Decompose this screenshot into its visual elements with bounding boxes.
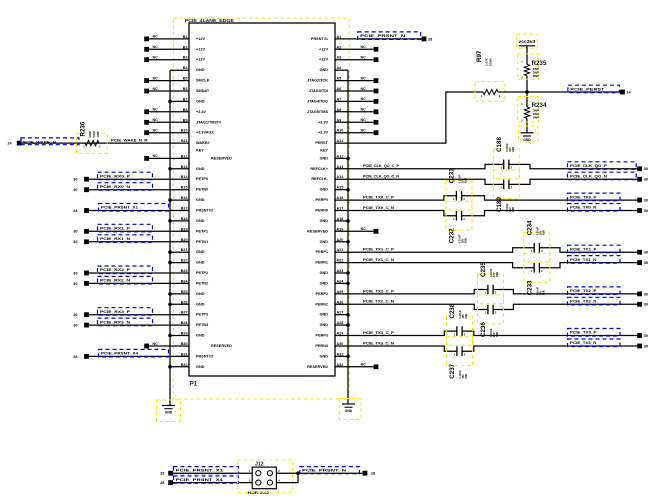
- svg-text:A19: A19: [337, 227, 344, 231]
- svg-text:PETP3: PETP3: [196, 313, 208, 317]
- svg-text:A15: A15: [337, 186, 344, 190]
- svg-text:A31: A31: [337, 352, 344, 356]
- svg-text:GND: GND: [196, 302, 205, 306]
- svg-text:X5R: X5R: [464, 238, 468, 243]
- svg-text:B17: B17: [181, 207, 188, 211]
- svg-text:B27: B27: [181, 311, 188, 315]
- svg-text:A21: A21: [337, 248, 344, 252]
- svg-text:PCIE_CLK_QO_P: PCIE_CLK_QO_P: [570, 163, 607, 168]
- svg-text:30: 30: [73, 271, 77, 275]
- svg-text:PRSNT#1: PRSNT#1: [311, 37, 328, 41]
- svg-text:A27: A27: [337, 311, 344, 315]
- svg-text:GND: GND: [196, 68, 205, 72]
- svg-text:X5R: X5R: [495, 332, 499, 337]
- svg-text:GND: GND: [320, 271, 329, 275]
- svg-text:B7: B7: [183, 97, 188, 101]
- svg-text:+12V: +12V: [196, 47, 205, 51]
- svg-text:GND: GND: [196, 198, 205, 202]
- svg-text:RESERVED: RESERVED: [307, 229, 328, 233]
- svg-text:B15: B15: [181, 186, 188, 190]
- svg-text:GND: GND: [320, 188, 329, 192]
- svg-text:30: 30: [644, 261, 648, 265]
- svg-text:+3.3V: +3.3V: [318, 120, 328, 124]
- svg-text:NC: NC: [361, 227, 367, 231]
- svg-text:RESERVED: RESERVED: [211, 344, 232, 348]
- svg-text:B10: B10: [181, 129, 188, 133]
- svg-text:NC: NC: [153, 129, 159, 133]
- svg-text:PRSNT#2: PRSNT#2: [196, 354, 213, 358]
- svg-text:30: 30: [644, 251, 648, 255]
- svg-text:A14: A14: [337, 175, 345, 179]
- svg-text:A9: A9: [337, 118, 342, 122]
- svg-text:C236: C236: [480, 322, 487, 337]
- svg-text:B16: B16: [181, 196, 188, 200]
- svg-text:PCIE_RX2_P: PCIE_RX2_P: [100, 267, 130, 272]
- svg-text:A6: A6: [337, 87, 342, 91]
- svg-text:30: 30: [644, 334, 648, 338]
- svg-text:C232: C232: [449, 228, 456, 243]
- svg-text:X5R: X5R: [542, 230, 546, 235]
- svg-text:A11: A11: [337, 139, 344, 143]
- svg-text:PRSNT#2: PRSNT#2: [196, 209, 213, 213]
- svg-text:PCIE_TX0_N: PCIE_TX0_N: [570, 205, 597, 210]
- svg-text:+12V: +12V: [319, 58, 328, 62]
- svg-text:PETN1: PETN1: [196, 240, 208, 244]
- svg-text:A32: A32: [337, 363, 344, 367]
- svg-text:A20: A20: [337, 238, 344, 242]
- svg-text:JTAG3/TDI: JTAG3/TDI: [309, 89, 328, 93]
- svg-text:PCIE_CLK_QO_C_N: PCIE_CLK_QO_C_N: [363, 175, 399, 179]
- svg-text:B2: B2: [183, 45, 188, 49]
- svg-text:A17: A17: [337, 207, 344, 211]
- svg-text:A24: A24: [337, 279, 345, 283]
- svg-text:GND: GND: [196, 365, 205, 369]
- svg-text:PETP1: PETP1: [196, 229, 208, 233]
- svg-text:PCIE_PRSNT_X1: PCIE_PRSNT_X1: [176, 468, 224, 473]
- svg-text:GND: GND: [320, 323, 329, 327]
- svg-text:X5R: X5R: [464, 178, 468, 183]
- svg-text:NC: NC: [153, 45, 159, 49]
- svg-text:PCIE_RX3_P: PCIE_RX3_P: [100, 309, 130, 314]
- svg-text:X5R: X5R: [495, 272, 499, 277]
- svg-text:PERN3: PERN3: [315, 344, 328, 348]
- svg-text:30: 30: [73, 313, 77, 317]
- svg-text:B22: B22: [181, 259, 188, 263]
- svg-text:PERP3: PERP3: [316, 334, 328, 338]
- svg-text:PERN1: PERN1: [315, 261, 328, 265]
- svg-text:GND: GND: [165, 411, 173, 415]
- svg-text:PCIE_TX3_C_N: PCIE_TX3_C_N: [363, 341, 394, 345]
- svg-text:GND: GND: [320, 68, 329, 72]
- svg-text:C189: C189: [496, 197, 503, 212]
- svg-text:X5R: X5R: [464, 313, 468, 318]
- svg-text:PCIE_PRSNT_X1: PCIE_PRSNT_X1: [101, 205, 139, 210]
- svg-text:30: 30: [644, 178, 648, 182]
- svg-text:NC: NC: [361, 45, 367, 49]
- svg-text:A28: A28: [337, 321, 344, 325]
- svg-text:P1: P1: [190, 381, 198, 388]
- svg-text:PCIE_CLK_QO_C_P: PCIE_CLK_QO_C_P: [363, 164, 400, 168]
- svg-text:PCIE_TX1_C_P: PCIE_TX1_C_P: [363, 248, 395, 252]
- svg-text:PCIE_PRSNT_X4: PCIE_PRSNT_X4: [101, 351, 139, 356]
- svg-text:NC: NC: [361, 129, 367, 133]
- svg-text:A5: A5: [337, 77, 342, 81]
- svg-text:R97: R97: [476, 50, 483, 62]
- svg-text:A1: A1: [337, 35, 342, 39]
- svg-text:+3.3V: +3.3V: [196, 110, 206, 114]
- svg-text:NC: NC: [361, 363, 367, 367]
- svg-text:GND: GND: [320, 219, 329, 223]
- svg-text:30: 30: [73, 178, 77, 182]
- svg-text:B14: B14: [181, 175, 189, 179]
- svg-text:B21: B21: [181, 248, 188, 252]
- svg-text:PCIE_PRSNT_N: PCIE_PRSNT_N: [302, 468, 346, 473]
- svg-text:30: 30: [644, 344, 648, 348]
- svg-text:PCIE_PRSNT_X4: PCIE_PRSNT_X4: [176, 477, 224, 482]
- svg-text:PETN0: PETN0: [196, 188, 208, 192]
- svg-text:PERST: PERST: [315, 141, 328, 145]
- svg-text:1.00K: 1.00K: [485, 57, 489, 66]
- svg-text:PETN3: PETN3: [196, 323, 208, 327]
- svg-text:B19: B19: [181, 227, 188, 231]
- svg-text:JTAG5/TMS: JTAG5/TMS: [307, 110, 328, 114]
- svg-text:PCIE_PRSNT_N: PCIE_PRSNT_N: [360, 33, 405, 38]
- svg-text:GND: GND: [523, 138, 531, 142]
- svg-text:A26: A26: [337, 300, 344, 304]
- svg-text:PCIE_RX1_N: PCIE_RX1_N: [100, 236, 130, 241]
- svg-text:PERN0: PERN0: [315, 209, 328, 213]
- svg-text:A10: A10: [337, 129, 344, 133]
- svg-text:B20: B20: [181, 238, 188, 242]
- svg-text:C234: C234: [526, 220, 533, 235]
- svg-text:PCIE_RX3_N: PCIE_RX3_N: [100, 319, 130, 324]
- svg-text:C188: C188: [496, 137, 503, 152]
- svg-text:PCIE_WAKE_N: PCIE_WAKE_N: [23, 139, 56, 144]
- svg-text:B3: B3: [183, 56, 188, 60]
- svg-text:A18: A18: [337, 217, 344, 221]
- svg-text:NC: NC: [153, 35, 159, 39]
- svg-text:PERN2: PERN2: [315, 302, 328, 306]
- svg-text:J12: J12: [255, 461, 264, 467]
- svg-text:NC: NC: [153, 154, 159, 158]
- svg-text:B30: B30: [181, 342, 188, 346]
- svg-text:30: 30: [73, 324, 77, 328]
- svg-text:GND: GND: [196, 292, 205, 296]
- svg-text:WAKE#: WAKE#: [196, 141, 210, 145]
- svg-text:JTAG4/TDO: JTAG4/TDO: [307, 99, 328, 103]
- svg-text:PCIE_TX3_N: PCIE_TX3_N: [570, 340, 597, 345]
- svg-text:+3.3V: +3.3V: [318, 131, 328, 135]
- svg-text:KEY: KEY: [320, 149, 328, 153]
- svg-text:30: 30: [644, 199, 648, 203]
- svg-text:B12: B12: [181, 154, 188, 158]
- svg-text:30: 30: [644, 292, 648, 296]
- svg-text:PCIE_TX1_C_N: PCIE_TX1_C_N: [363, 258, 394, 262]
- svg-text:R236: R236: [80, 121, 87, 136]
- svg-text:A23: A23: [337, 269, 344, 273]
- svg-text:B13: B13: [181, 165, 188, 169]
- svg-text:30: 30: [73, 230, 77, 234]
- svg-text:DNP: DNP: [533, 116, 539, 120]
- svg-text:C237: C237: [449, 363, 456, 378]
- svg-text:PCIE_TX2_N: PCIE_TX2_N: [570, 299, 597, 304]
- svg-text:PCIE_TX2_C_P: PCIE_TX2_C_P: [363, 289, 395, 293]
- svg-text:PCIE_TX0_P: PCIE_TX0_P: [570, 194, 597, 199]
- svg-text:PCIE_CLK_QO_N: PCIE_CLK_QO_N: [570, 173, 607, 178]
- svg-text:PCIE_RX0_P: PCIE_RX0_P: [100, 173, 130, 178]
- svg-text:A7: A7: [337, 97, 342, 101]
- svg-text:A22: A22: [337, 259, 344, 263]
- svg-text:B31: B31: [181, 352, 188, 356]
- svg-text:DNP: DNP: [96, 131, 100, 137]
- svg-text:GND: GND: [345, 409, 353, 413]
- svg-text:GND: GND: [196, 261, 205, 265]
- svg-text:28: 28: [428, 37, 432, 41]
- svg-text:PCIE_4LANE_EDGE: PCIE_4LANE_EDGE: [185, 18, 234, 23]
- svg-text:A30: A30: [337, 342, 344, 346]
- svg-text:GND: GND: [196, 219, 205, 223]
- svg-text:GND: GND: [320, 156, 329, 160]
- svg-text:B11: B11: [181, 139, 188, 143]
- svg-text:28: 28: [73, 209, 77, 213]
- svg-text:PCIE_RX1_P: PCIE_RX1_P: [100, 226, 130, 231]
- svg-text:PCIE_PERST: PCIE_PERST: [570, 86, 605, 91]
- svg-text:B32: B32: [181, 363, 188, 367]
- svg-text:28: 28: [160, 472, 164, 476]
- svg-text:B24: B24: [181, 279, 189, 283]
- svg-text:JTAG1/TRST#: JTAG1/TRST#: [196, 120, 222, 124]
- svg-text:RESERVED: RESERVED: [307, 365, 328, 369]
- svg-text:X5R: X5R: [464, 374, 468, 379]
- svg-text:GND: GND: [320, 354, 329, 358]
- svg-text:B18: B18: [181, 217, 188, 221]
- svg-text:B26: B26: [181, 300, 188, 304]
- svg-text:30: 30: [73, 240, 77, 244]
- svg-text:A25: A25: [337, 290, 344, 294]
- svg-text:A13: A13: [337, 165, 344, 169]
- svg-text:REFCLK-: REFCLK-: [311, 177, 328, 181]
- svg-text:GND: GND: [320, 313, 329, 317]
- svg-text:NC: NC: [153, 342, 159, 346]
- svg-text:PETP0: PETP0: [196, 177, 208, 181]
- svg-text:NC: NC: [361, 87, 367, 91]
- svg-text:PETP2: PETP2: [196, 271, 208, 275]
- svg-text:PCIE_TX3_C_P: PCIE_TX3_C_P: [363, 331, 395, 335]
- svg-text:NC: NC: [361, 108, 367, 112]
- svg-text:DNP: DNP: [533, 74, 539, 78]
- svg-text:B25: B25: [181, 290, 188, 294]
- svg-text:C235: C235: [480, 262, 487, 277]
- svg-text:RESERVED: RESERVED: [211, 156, 232, 160]
- svg-text:A3: A3: [337, 56, 342, 60]
- svg-text:PERP2: PERP2: [316, 292, 328, 296]
- svg-text:PCIE_TX0_C_N: PCIE_TX0_C_N: [363, 206, 394, 210]
- svg-text:PCIE_RX0_N: PCIE_RX0_N: [100, 184, 130, 189]
- svg-text:GND: GND: [196, 167, 205, 171]
- svg-text:PCIE_TX3_P: PCIE_TX3_P: [570, 330, 597, 335]
- svg-text:B28: B28: [181, 321, 188, 325]
- svg-text:28: 28: [160, 481, 164, 485]
- svg-text:PCIE_TX1_P: PCIE_TX1_P: [570, 246, 597, 251]
- svg-text:B8: B8: [183, 108, 188, 112]
- svg-text:+12V: +12V: [319, 47, 328, 51]
- svg-text:SMCLK: SMCLK: [196, 79, 210, 83]
- svg-text:30: 30: [644, 167, 648, 171]
- svg-text:B6: B6: [183, 87, 188, 91]
- svg-text:PCIE_TX2_C_N: PCIE_TX2_C_N: [363, 300, 394, 304]
- svg-text:vcc3v3: vcc3v3: [518, 39, 535, 44]
- svg-text:30: 30: [644, 303, 648, 307]
- svg-text:28: 28: [73, 355, 77, 359]
- svg-text:X5R: X5R: [511, 147, 515, 152]
- svg-text:GND: GND: [196, 99, 205, 103]
- svg-text:PETN2: PETN2: [196, 281, 208, 285]
- svg-text:PCIE_WAKE_N_R: PCIE_WAKE_N_R: [111, 138, 148, 143]
- svg-text:A29: A29: [337, 332, 344, 336]
- svg-text:NC: NC: [361, 56, 367, 60]
- svg-text:B5: B5: [183, 77, 188, 81]
- svg-text:SMDAT: SMDAT: [196, 89, 210, 93]
- svg-text:NC: NC: [153, 87, 159, 91]
- svg-text:A8: A8: [337, 108, 342, 112]
- svg-text:GND: GND: [320, 281, 329, 285]
- svg-text:B1: B1: [183, 35, 188, 39]
- svg-text:NC: NC: [361, 97, 367, 101]
- svg-text:C233: C233: [526, 280, 533, 295]
- svg-text:GND: GND: [196, 250, 205, 254]
- svg-text:B23: B23: [181, 269, 188, 273]
- svg-text:NC: NC: [153, 56, 159, 60]
- svg-text:A12: A12: [337, 154, 344, 158]
- svg-text:PCIE_TX1_N: PCIE_TX1_N: [570, 257, 597, 262]
- svg-text:JTAG2/TCK: JTAG2/TCK: [307, 79, 328, 83]
- svg-text:B29: B29: [181, 332, 188, 336]
- svg-text:B9: B9: [183, 118, 188, 122]
- svg-text:30: 30: [73, 282, 77, 286]
- svg-text:28: 28: [371, 472, 375, 476]
- svg-text:C231: C231: [449, 168, 456, 183]
- svg-text:C238: C238: [449, 303, 456, 318]
- svg-text:PCIE_TX2_P: PCIE_TX2_P: [570, 288, 597, 293]
- svg-text:30: 30: [644, 209, 648, 213]
- svg-text:+3.3VAUX: +3.3VAUX: [196, 131, 214, 135]
- svg-text:PERP0: PERP0: [316, 198, 328, 202]
- svg-text:NC: NC: [153, 76, 159, 80]
- svg-text:+12V: +12V: [196, 58, 205, 62]
- svg-text:NC: NC: [153, 118, 159, 122]
- svg-text:30: 30: [73, 188, 77, 192]
- svg-text:1/16W: 1/16W: [489, 58, 493, 66]
- svg-text:PCIE_RX2_N: PCIE_RX2_N: [100, 278, 130, 283]
- svg-text:GND: GND: [320, 240, 329, 244]
- svg-text:KEY: KEY: [196, 149, 204, 153]
- svg-text:PERP1: PERP1: [316, 250, 328, 254]
- svg-text:A2: A2: [337, 45, 342, 49]
- svg-text:A16: A16: [337, 196, 344, 200]
- svg-text:GND: GND: [196, 334, 205, 338]
- svg-text:REFCLK+: REFCLK+: [310, 167, 328, 171]
- svg-text:PCIE_TX0_C_P: PCIE_TX0_C_P: [363, 196, 395, 200]
- svg-text:NC: NC: [361, 118, 367, 122]
- svg-text:NC: NC: [361, 76, 367, 80]
- svg-text:+12V: +12V: [196, 37, 205, 41]
- svg-text:NC: NC: [153, 108, 159, 112]
